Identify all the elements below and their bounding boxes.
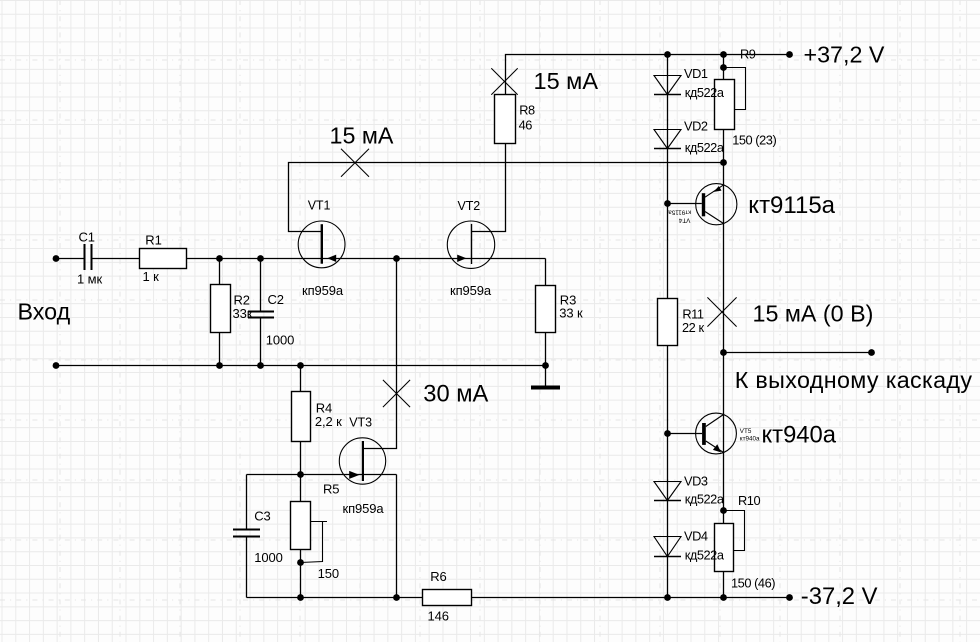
diode VD1 bbox=[654, 76, 681, 95]
wire: C2 branch upper bbox=[260, 259, 262, 311]
resistor R11 bbox=[658, 299, 678, 346]
svg-text:15 мА: 15 мА bbox=[534, 68, 599, 94]
wire: long 15 mA line from VT1 gate to R9 bottom node bbox=[289, 163, 724, 232]
node: VT3 drain rail junction bbox=[393, 594, 400, 601]
svg-text:VT4: VT4 bbox=[678, 217, 690, 224]
svg-text:кт940а: кт940а bbox=[740, 435, 760, 442]
svg-text:VD1: VD1 bbox=[684, 66, 708, 81]
node: R10 wiper junction bbox=[720, 507, 727, 514]
svg-text:1 к: 1 к bbox=[143, 269, 160, 284]
svg-text:R6: R6 bbox=[430, 569, 446, 584]
svg-text:22 к: 22 к bbox=[682, 320, 704, 335]
svg-text:VT1: VT1 bbox=[308, 198, 331, 212]
wire: C3 branch lower to bottom rail bbox=[246, 538, 248, 598]
wire: R9 column from rail through transistors to bottom rail bbox=[723, 55, 725, 598]
svg-text:VD4: VD4 bbox=[684, 529, 708, 544]
wire: VT2 gate up to R8 bbox=[472, 144, 506, 232]
node: VT1-VT2 drain junction bbox=[393, 255, 400, 262]
svg-text:VT2: VT2 bbox=[458, 199, 481, 213]
svg-text:C1: C1 bbox=[79, 230, 95, 245]
svg-text:30 мА: 30 мА bbox=[423, 381, 488, 407]
svg-text:кт9115а: кт9115а bbox=[668, 208, 691, 215]
svg-text:VD3: VD3 bbox=[684, 474, 708, 489]
node: R4-R5-VT3 junction bbox=[297, 471, 304, 478]
svg-text:кт9115а: кт9115а bbox=[748, 192, 835, 219]
transistor VT3 (кп959а FET) bbox=[339, 438, 385, 484]
svg-text:Вход: Вход bbox=[18, 299, 71, 325]
resistor R3 bbox=[536, 286, 556, 333]
wire: R3 branch from main line down to ground bbox=[545, 259, 547, 386]
node: input terminal top bbox=[53, 255, 60, 262]
wire: R5 branch down to bottom rail bbox=[300, 475, 302, 598]
svg-text:VT3: VT3 bbox=[349, 416, 372, 430]
wire: C1 to R1 to VT1/VT2 main signal line bbox=[93, 258, 546, 260]
svg-text:15 мА (0 В): 15 мА (0 В) bbox=[753, 301, 874, 327]
svg-text:-37,2 V: -37,2 V bbox=[801, 583, 878, 610]
node: VT4 base junction bbox=[664, 200, 671, 207]
node: output junction bbox=[720, 349, 727, 356]
diode VD2 bbox=[654, 130, 681, 149]
resistor R6 bbox=[423, 590, 472, 606]
svg-text:2,2 к: 2,2 к bbox=[315, 414, 342, 429]
svg-text:R8: R8 bbox=[519, 102, 535, 117]
capacitor C3 bbox=[233, 530, 260, 537]
svg-text:VT5: VT5 bbox=[740, 428, 752, 435]
node: C2 top junction bbox=[257, 255, 264, 262]
resistor R4 bbox=[292, 392, 311, 442]
node: ground junction bbox=[542, 362, 549, 369]
node: R2 bottom junction bbox=[216, 362, 223, 369]
trimmer resistor R5 bbox=[291, 502, 328, 563]
svg-text:15 мА: 15 мА bbox=[330, 123, 394, 149]
svg-text:кд522а: кд522а bbox=[685, 140, 725, 155]
node: -37V terminal bbox=[786, 594, 793, 601]
transistor VT5 кт940а (NPN) bbox=[668, 413, 737, 454]
svg-text:R10: R10 bbox=[738, 493, 760, 508]
svg-text:146: 146 bbox=[428, 609, 449, 624]
wire: 30 mA measured line from main junction down to VT3 gate bbox=[363, 259, 397, 449]
transistor VT2 (кп959а FET) bbox=[447, 221, 494, 268]
svg-text:150: 150 bbox=[318, 566, 339, 581]
svg-text:33 к: 33 к bbox=[559, 306, 583, 321]
node: output terminal bbox=[868, 349, 875, 356]
transistor VT1 (кп959а FET) bbox=[298, 221, 345, 268]
diode VD3 bbox=[654, 482, 681, 501]
capacitor C2 bbox=[248, 312, 274, 318]
wire: VT3 drain down to bottom rail bbox=[396, 475, 398, 598]
svg-text:150 (23): 150 (23) bbox=[732, 133, 776, 148]
current mark X 15 мА at R8 bbox=[491, 68, 517, 94]
svg-text:VD2: VD2 bbox=[684, 119, 708, 134]
node: R9 wiper junction bbox=[720, 64, 727, 71]
node: VT5 base junction bbox=[664, 430, 671, 437]
node: C2 bottom junction bbox=[257, 362, 264, 369]
capacitor C1 bbox=[85, 244, 92, 270]
svg-text:кд522а: кд522а bbox=[685, 85, 725, 100]
node: R2 top junction bbox=[216, 255, 223, 262]
wire: C3 branch upper bbox=[246, 475, 248, 529]
svg-text:кд522а: кд522а bbox=[685, 548, 725, 563]
node: R10 bottom junction bbox=[720, 594, 727, 601]
ground bbox=[531, 386, 560, 390]
node: +37V terminal bbox=[786, 51, 793, 58]
svg-text:1000: 1000 bbox=[254, 550, 283, 565]
current mark X 15 мА on long wire bbox=[341, 149, 369, 177]
svg-text:R9: R9 bbox=[740, 47, 756, 62]
svg-text:33к: 33к bbox=[233, 306, 253, 321]
trimmer resistor R10 bbox=[715, 511, 745, 572]
wire: R8 top to +37V rail corner bbox=[506, 55, 790, 95]
resistor R1 bbox=[140, 249, 187, 269]
svg-text:R2: R2 bbox=[234, 292, 250, 307]
wire: lower input rail bbox=[56, 365, 546, 367]
svg-text:кп959а: кп959а bbox=[302, 283, 344, 298]
node: R4 top junction bbox=[297, 362, 304, 369]
svg-text:+37,2 V: +37,2 V bbox=[804, 42, 885, 68]
node: input terminal bottom bbox=[53, 362, 60, 369]
wire: input top from terminal to C1 bbox=[56, 258, 84, 260]
svg-text:R5: R5 bbox=[323, 482, 339, 497]
diode VD4 bbox=[654, 537, 681, 557]
transistor VT4 кт9115а (PNP) bbox=[668, 184, 737, 225]
wire: R2 branch bbox=[219, 259, 221, 366]
svg-text:1 мк: 1 мк bbox=[77, 271, 102, 286]
node: R9 top junction bbox=[720, 51, 727, 58]
svg-text:кп959а: кп959а bbox=[450, 283, 492, 298]
node: VD column bottom junction bbox=[664, 594, 671, 601]
current mark X 15 мА (0 В) bbox=[707, 297, 736, 326]
wire: middle horizontal to VT3 bbox=[247, 474, 397, 476]
wire: diode column VD1-VD4 vertical bbox=[667, 55, 669, 598]
trimmer resistor R9 bbox=[715, 68, 746, 130]
current mark X 30 мА bbox=[383, 380, 410, 407]
wire: C2 branch lower bbox=[260, 319, 262, 366]
svg-text:C3: C3 bbox=[254, 508, 270, 523]
svg-text:кп959а: кп959а bbox=[343, 501, 385, 516]
node: VD column top junction bbox=[664, 51, 671, 58]
svg-text:C2: C2 bbox=[268, 292, 284, 307]
svg-text:1000: 1000 bbox=[266, 333, 295, 348]
node: R5 bottom rail junction bbox=[297, 594, 304, 601]
svg-text:кт940а: кт940а bbox=[762, 421, 837, 448]
svg-text:150 (46): 150 (46) bbox=[731, 576, 775, 591]
wire: bottom -37V rail bbox=[247, 597, 790, 599]
svg-text:кд522а: кд522а bbox=[685, 492, 725, 507]
node: R5 wiper junction bbox=[297, 559, 304, 566]
wire: R4 branch bbox=[300, 366, 302, 475]
node: R9 bottom junction bbox=[720, 159, 727, 166]
svg-text:R1: R1 bbox=[145, 233, 161, 248]
svg-text:К выходному каскаду: К выходному каскаду bbox=[735, 367, 973, 393]
svg-text:46: 46 bbox=[519, 117, 533, 132]
resistor R2 bbox=[211, 285, 231, 333]
resistor R8 bbox=[495, 95, 516, 144]
wire: output line to next stage bbox=[724, 352, 872, 354]
